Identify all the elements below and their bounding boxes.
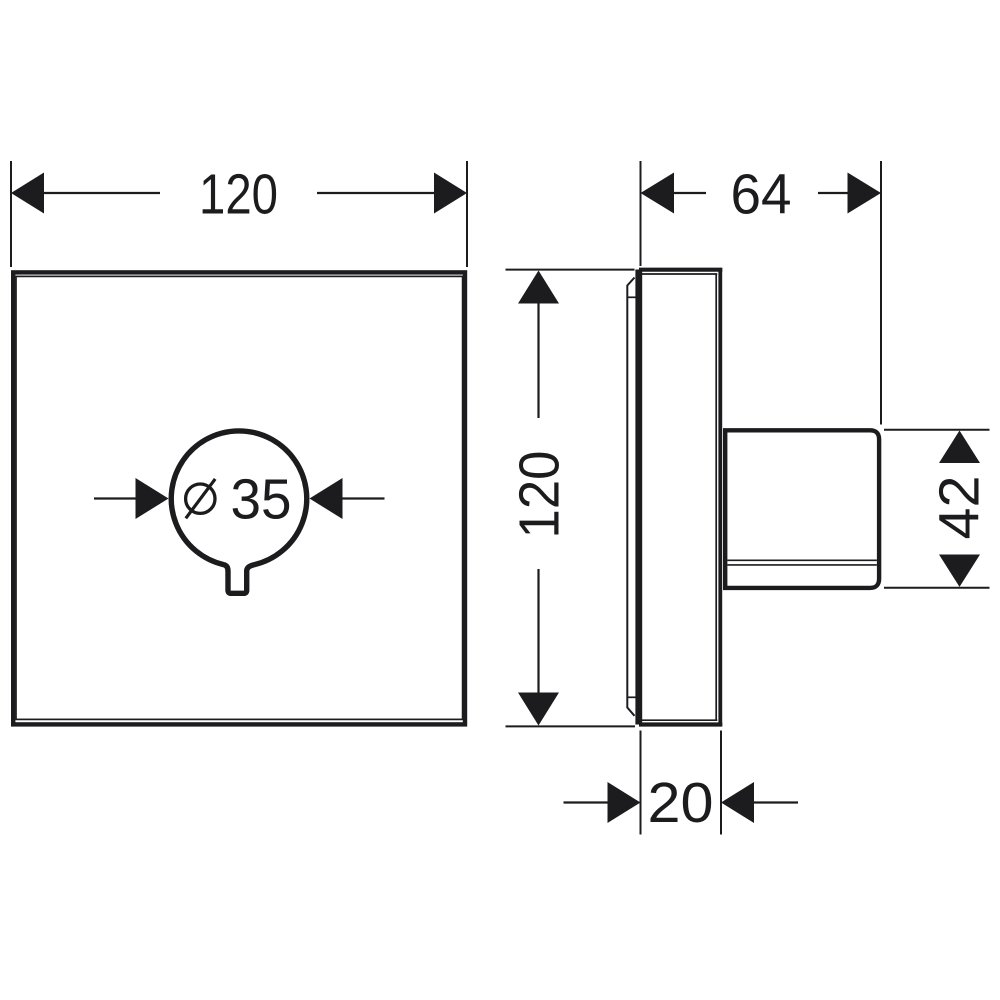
dimension 20: right leader line	[754, 801, 799, 803]
dimension 120 top: left arrow	[11, 173, 44, 214]
svg-text:120: 120	[199, 163, 278, 227]
leader line right of circle	[342, 497, 385, 499]
dimension 120 top: right arrow	[434, 173, 467, 214]
dimension 120 side: bottom arrow	[518, 693, 559, 726]
side view: knob outline	[725, 430, 879, 588]
dimension 120 top: left extension line	[10, 161, 12, 267]
svg-text:20: 20	[648, 771, 714, 835]
side view: front silhouette chamfer line	[627, 278, 634, 716]
leader line left of circle	[94, 497, 136, 499]
dimension 120 top: right extension line	[466, 161, 468, 267]
dimension 42: top extension line	[884, 429, 990, 431]
dimension 20: left arrow pointing right	[608, 782, 641, 823]
side view: plate inner thin line below top edge	[641, 273, 717, 275]
dimension 64: line stubs	[673, 192, 849, 194]
side view: plate front face thick band	[635, 270, 642, 725]
diameter symbol of label Ø35	[186, 479, 216, 518]
dimension 120 side: top extension line	[506, 269, 635, 271]
dimension 64: left extension line	[640, 161, 642, 266]
side view: top tangent tick	[627, 296, 638, 298]
svg-text:120: 120	[508, 451, 572, 539]
side view: knob groove lines	[727, 560, 877, 565]
dimension 64: value label	[731, 163, 792, 227]
dimension 20: right extension line	[720, 731, 722, 835]
dimension 20: left leader line	[564, 801, 609, 803]
svg-text:35: 35	[231, 467, 292, 531]
value label 35	[231, 467, 292, 531]
dimension 64: left arrow	[641, 173, 675, 214]
dimension 64: right extension line	[880, 161, 882, 425]
side view: plate inner thin line near back face	[715, 274, 717, 720]
dimension 64: right arrow	[848, 173, 882, 214]
dimension 20: left extension line	[640, 731, 642, 835]
side view: bottom tangent tick	[627, 696, 638, 698]
dimension 42: top arrow	[939, 431, 980, 464]
dimension 120 top: dimension line segments	[43, 192, 435, 194]
svg-text:42: 42	[928, 476, 992, 540]
arrow pointing left at circle right edge	[310, 478, 343, 519]
side view: plate bottom edge	[639, 722, 722, 726]
dimension 120 side: dimension line segments	[537, 303, 539, 694]
dimension 120 side: value label rotated	[508, 451, 572, 539]
dimension 120 side: top arrow	[518, 271, 559, 304]
svg-text:64: 64	[731, 163, 792, 227]
front view: handle circle with tab notch	[171, 431, 306, 593]
side view: plate top edge	[639, 268, 722, 272]
arrow pointing right at circle left edge	[136, 478, 169, 519]
dimension 120 top: value label	[199, 163, 278, 227]
dimension 42: bottom arrow	[939, 555, 980, 587]
dimension 120 side: bottom extension line	[506, 725, 636, 727]
dimension 20: right arrow pointing left	[721, 782, 754, 823]
dimension 20: value label	[648, 771, 714, 835]
front view: square plate outer outline	[13, 272, 465, 724]
dimension 42: bottom extension line	[884, 587, 990, 589]
side view: plate inner thin line above bottom edge	[641, 719, 717, 721]
side view: plate back face line	[718, 268, 722, 726]
dimension 42: value label rotated	[928, 476, 992, 540]
front view: square plate inner chamfer line	[16, 276, 463, 719]
